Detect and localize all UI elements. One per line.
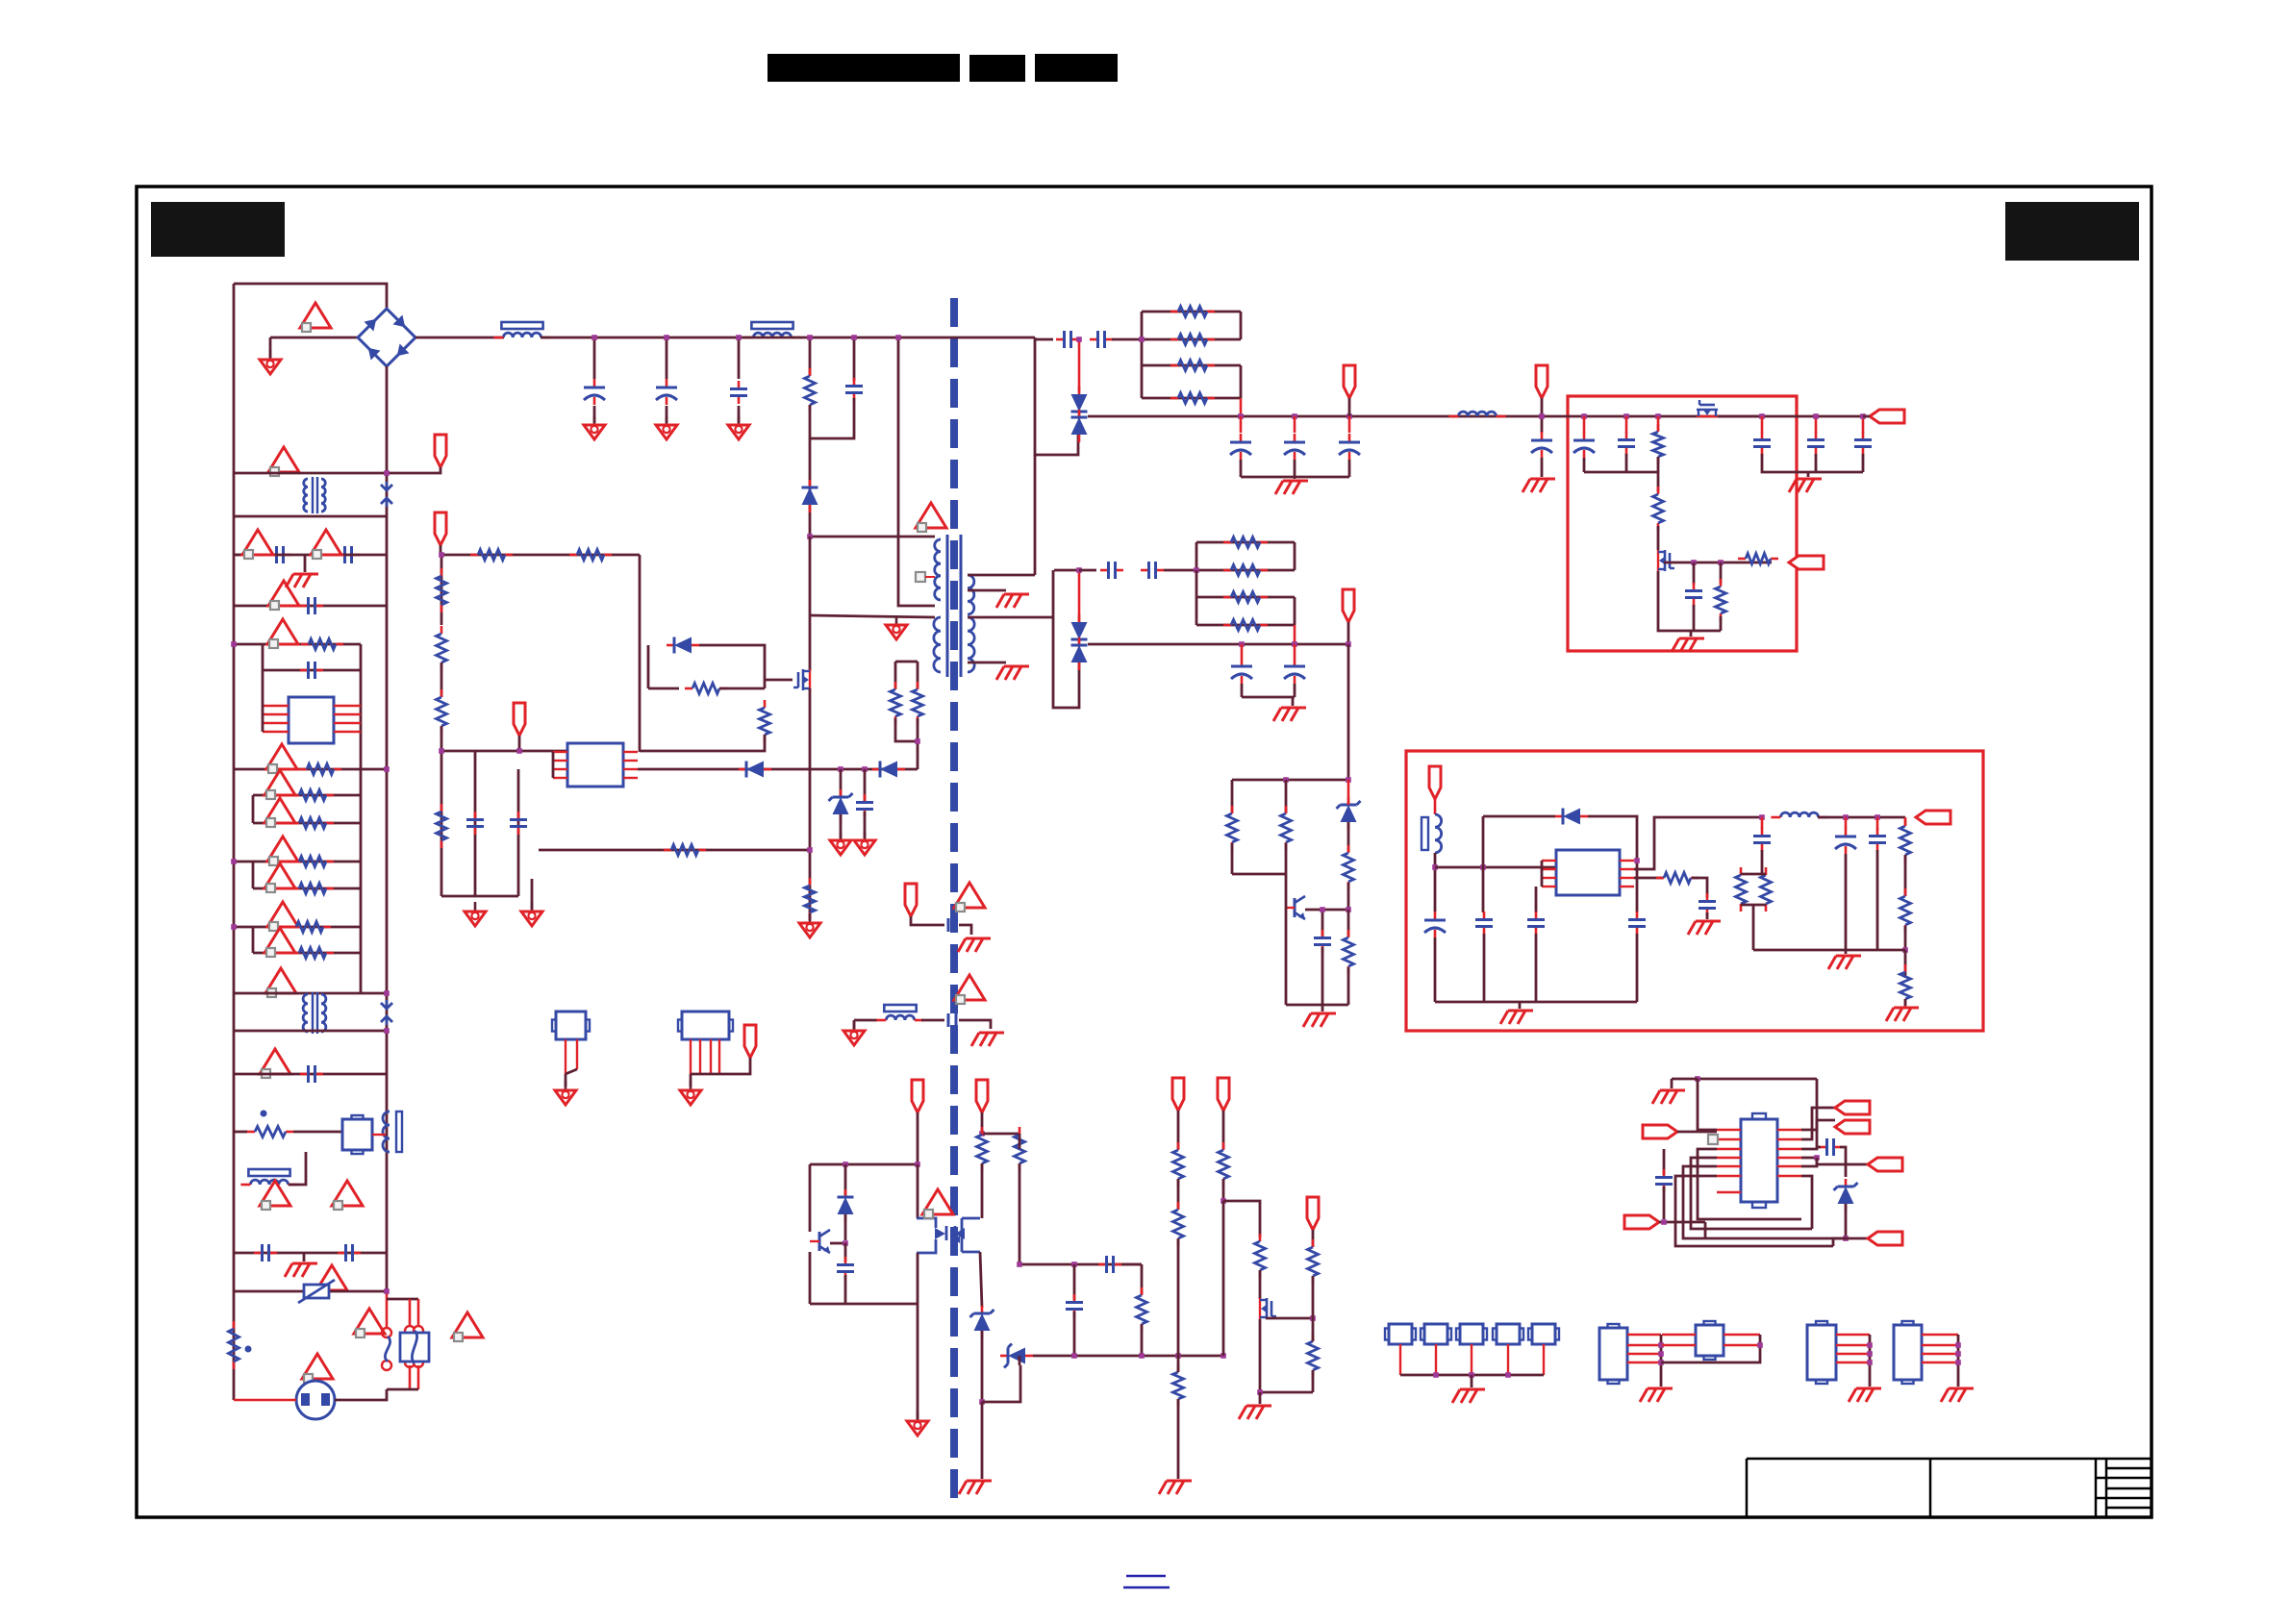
wire pin bbox=[718, 1039, 720, 1074]
wire bbox=[262, 670, 264, 732]
wire bbox=[1636, 850, 1639, 912]
wire pin bbox=[1724, 1344, 1760, 1346]
resistor bbox=[1170, 307, 1215, 317]
wire bbox=[853, 1020, 856, 1029]
wire bbox=[1241, 476, 1349, 479]
wire bbox=[1904, 817, 1907, 826]
resistor bbox=[437, 804, 447, 848]
T103 aux winding bbox=[934, 617, 941, 672]
connector pin 12V bbox=[1344, 365, 1355, 398]
wire aux supply bbox=[638, 768, 918, 771]
transistor Q102 bbox=[810, 1230, 830, 1253]
wire bbox=[1840, 1147, 1846, 1177]
wire pin bbox=[710, 1039, 712, 1074]
node junction bbox=[1759, 814, 1765, 820]
connector pin 5V bbox=[1343, 589, 1354, 622]
node junction bbox=[851, 335, 857, 340]
wire bbox=[1177, 1356, 1180, 1372]
wire bbox=[917, 718, 919, 769]
pin marker bbox=[1708, 1135, 1718, 1144]
wire bbox=[1657, 526, 1660, 550]
wire ladder bottom bbox=[234, 992, 387, 995]
node junction bbox=[1759, 413, 1765, 419]
wire bbox=[840, 814, 843, 838]
wire pin bbox=[334, 722, 361, 724]
main switching MOSFET Q101 bbox=[793, 669, 810, 690]
NTC dot bbox=[261, 1111, 267, 1117]
pin marker bbox=[916, 572, 925, 582]
wire bbox=[1019, 1134, 1021, 1149]
rectifier dual diode D202 bbox=[1071, 614, 1088, 647]
node junction bbox=[231, 924, 237, 930]
wire pin bbox=[1836, 1334, 1870, 1336]
capacitor bbox=[837, 1257, 854, 1280]
capacitor bbox=[1685, 583, 1702, 606]
wire bbox=[566, 1069, 577, 1074]
wire bbox=[1196, 569, 1295, 572]
node junction bbox=[843, 1162, 848, 1167]
wire bbox=[1019, 1356, 1021, 1365]
sub-circuit box (regulator module) bbox=[1406, 751, 1983, 1031]
chassis ground bbox=[1886, 1008, 1919, 1021]
wire bbox=[1142, 338, 1241, 341]
wire pin bbox=[1662, 1334, 1696, 1336]
wire gate bbox=[765, 679, 793, 682]
winding bbox=[321, 479, 325, 512]
wire bbox=[1815, 416, 1818, 433]
wire bbox=[968, 662, 1006, 664]
node junction bbox=[1239, 641, 1245, 647]
resistor bbox=[1736, 867, 1747, 912]
node junction bbox=[843, 1240, 848, 1246]
choke L204 bbox=[876, 1005, 923, 1020]
wire bbox=[234, 1399, 296, 1402]
wire bbox=[1862, 416, 1865, 433]
wire bbox=[1232, 873, 1286, 876]
resistor bbox=[1223, 592, 1268, 603]
resistor bbox=[1656, 873, 1699, 884]
wire secondary loop 1 bbox=[1035, 337, 1078, 455]
wire bbox=[1434, 853, 1437, 912]
wire bbox=[959, 1020, 991, 1029]
wire bbox=[1240, 312, 1243, 339]
wire fuse lead bbox=[417, 1299, 420, 1328]
wire bbox=[968, 574, 1035, 577]
wire ladder row 7 bbox=[234, 926, 361, 929]
node junction bbox=[1505, 1372, 1511, 1378]
wire pin bbox=[1620, 860, 1634, 862]
wire bbox=[1196, 624, 1295, 627]
wire fuse lead bbox=[409, 1299, 412, 1328]
resistor bbox=[664, 845, 706, 856]
wire bridge AC input bbox=[270, 337, 359, 339]
ground (isolated) bbox=[680, 1081, 701, 1105]
wire bbox=[1348, 416, 1351, 433]
wire bbox=[844, 1164, 847, 1197]
wire bbox=[1636, 934, 1639, 1002]
node junction bbox=[838, 766, 843, 772]
capacitor bbox=[1753, 828, 1771, 851]
wire bbox=[1675, 1176, 1833, 1246]
capacitor bbox=[337, 546, 360, 563]
mains plug P101 bbox=[296, 1381, 335, 1419]
wire pin bbox=[1836, 1344, 1870, 1346]
wire bbox=[1222, 1179, 1225, 1201]
wire pin bbox=[1543, 1344, 1545, 1375]
capacitor X2 bbox=[338, 1244, 361, 1262]
wire startup divider bbox=[440, 555, 443, 625]
capacitor bbox=[1090, 331, 1113, 348]
chassis ground bbox=[1273, 708, 1306, 721]
wire bbox=[1693, 605, 1696, 631]
node junction bbox=[1292, 641, 1297, 647]
diode D203 bbox=[1555, 809, 1588, 825]
wire bbox=[1177, 1111, 1180, 1149]
wire bbox=[1312, 1230, 1315, 1247]
resistor bbox=[437, 626, 447, 670]
resistor bbox=[291, 884, 334, 894]
node junction bbox=[1902, 947, 1908, 953]
wire bbox=[234, 472, 387, 475]
wire bbox=[1285, 908, 1288, 1005]
connector CN201 bbox=[1385, 1324, 1416, 1344]
capacitor bbox=[1753, 432, 1771, 455]
wire bbox=[1634, 817, 1762, 869]
ground (isolated) AC ref bbox=[260, 350, 281, 374]
resistor bbox=[437, 568, 447, 612]
node junction bbox=[384, 990, 390, 996]
wire bbox=[1305, 909, 1348, 912]
inductor L201 bbox=[1448, 412, 1505, 416]
wire bbox=[809, 1252, 812, 1304]
diode bbox=[1071, 410, 1088, 442]
wire bbox=[1797, 471, 1863, 474]
wire bbox=[1541, 458, 1544, 477]
connector pin sense 2 bbox=[1218, 1078, 1229, 1111]
spark gap SG102 bbox=[381, 1000, 392, 1025]
wire pin bbox=[1777, 1175, 1801, 1177]
wire bbox=[1292, 697, 1295, 706]
connector pin sense bbox=[1172, 1078, 1184, 1111]
wire bbox=[1957, 1335, 1960, 1387]
node junction bbox=[1194, 567, 1199, 573]
resistor bbox=[1716, 579, 1726, 621]
resistor bbox=[1173, 1364, 1184, 1407]
wire bbox=[1845, 854, 1848, 950]
resistor bbox=[291, 857, 334, 867]
title block bbox=[1747, 1459, 2152, 1517]
wire bbox=[1753, 949, 1905, 952]
node junction bbox=[1346, 777, 1351, 783]
resistor bbox=[437, 689, 447, 734]
isolation barrier (primary/secondary) bbox=[950, 298, 958, 1505]
wire bbox=[1141, 312, 1144, 398]
node junction bbox=[1658, 1342, 1664, 1348]
capacitor X bbox=[300, 1065, 323, 1083]
node junction bbox=[979, 1131, 985, 1137]
core bar bbox=[1422, 817, 1428, 850]
safety warning triangle bbox=[267, 619, 298, 648]
resistor bbox=[1761, 867, 1772, 912]
wire bbox=[1657, 457, 1660, 472]
safety warning triangle bbox=[264, 770, 295, 799]
wire bbox=[1671, 1079, 1673, 1088]
wire bbox=[1741, 873, 1766, 876]
wire ladder row 3 bbox=[253, 794, 361, 797]
fuse terminal bbox=[405, 1358, 415, 1367]
wire bbox=[1285, 874, 1288, 908]
node junction bbox=[516, 748, 522, 754]
wire bbox=[691, 1073, 719, 1076]
tab bbox=[1752, 1113, 1766, 1208]
resistor bbox=[1653, 487, 1664, 531]
zener ZD203 bbox=[1834, 1179, 1858, 1212]
wire bbox=[1231, 843, 1234, 874]
node junction bbox=[1718, 560, 1724, 565]
output tab connector bbox=[1835, 1120, 1870, 1134]
wire bbox=[1348, 398, 1351, 416]
wire bbox=[968, 616, 1051, 619]
wire pin bbox=[1620, 868, 1634, 870]
wire bbox=[234, 1073, 387, 1076]
safety warning triangle bbox=[267, 837, 298, 865]
core bar bbox=[396, 1112, 402, 1152]
node junction bbox=[1661, 1219, 1667, 1225]
wire pin bbox=[263, 731, 289, 733]
wire bbox=[809, 1164, 812, 1232]
chassis ground bbox=[959, 1481, 992, 1494]
wire bbox=[1692, 878, 1707, 897]
wire bridge output bbox=[415, 337, 504, 339]
resistor bbox=[1137, 1287, 1147, 1332]
capacitor bbox=[1807, 432, 1824, 455]
wire pin bbox=[1777, 1165, 1801, 1167]
core bbox=[313, 992, 317, 1034]
wire bbox=[1142, 311, 1241, 313]
node junction bbox=[1658, 1351, 1664, 1357]
wire bbox=[639, 555, 642, 752]
capacitor bus filter bbox=[730, 381, 747, 404]
node junction bbox=[1867, 1360, 1873, 1365]
wire bbox=[1231, 780, 1234, 813]
node junction bbox=[384, 1288, 390, 1294]
node junction bbox=[807, 847, 813, 853]
wire bbox=[1541, 861, 1544, 887]
diode aux D104 bbox=[739, 762, 771, 778]
wire bbox=[1801, 1176, 1812, 1229]
node junction bbox=[1623, 413, 1629, 419]
wire bbox=[1720, 562, 1723, 584]
output tab connector bbox=[1835, 1101, 1870, 1114]
Y-capacitor C_Y1 bbox=[948, 918, 956, 932]
chassis ground bbox=[1640, 1388, 1673, 1402]
wire start-up supply bbox=[440, 554, 640, 557]
resistor bbox=[1900, 888, 1911, 933]
node junction bbox=[1691, 560, 1697, 565]
node junction bbox=[231, 641, 237, 647]
wire bbox=[1285, 843, 1288, 874]
wire bbox=[1657, 472, 1660, 491]
wire bbox=[387, 1388, 418, 1391]
wire bbox=[1519, 1002, 1522, 1009]
wire bbox=[1845, 817, 1848, 829]
wire pin bbox=[1627, 1362, 1661, 1363]
wire bbox=[335, 1389, 387, 1400]
wire bbox=[1435, 866, 1556, 869]
wire bbox=[1035, 338, 1053, 341]
wire bbox=[1078, 570, 1081, 623]
wire 5V rail bbox=[1088, 643, 1348, 646]
fuse terminal bbox=[414, 1326, 423, 1336]
wire bbox=[1904, 950, 1907, 978]
node junction bbox=[1843, 1236, 1849, 1241]
capacitor bbox=[1056, 331, 1079, 348]
wire pin bbox=[565, 1039, 566, 1074]
wire bbox=[1876, 850, 1879, 950]
safety warning triangle bbox=[264, 928, 295, 957]
wire bbox=[1294, 625, 1296, 644]
wire bbox=[417, 1365, 420, 1389]
resistor bbox=[1015, 1127, 1025, 1171]
wire bbox=[1312, 1318, 1315, 1341]
capacitor bbox=[1869, 828, 1886, 851]
wire bbox=[1294, 644, 1296, 658]
wire bbox=[1223, 1201, 1260, 1237]
capacitor electrolytic bbox=[1339, 434, 1360, 460]
wire bbox=[1825, 1237, 1846, 1240]
wire bbox=[1435, 1001, 1637, 1004]
node junction bbox=[1017, 1262, 1022, 1267]
node junction bbox=[1076, 567, 1082, 573]
varistor RV101 bbox=[298, 1280, 335, 1303]
wire bbox=[830, 1242, 845, 1245]
chassis ground bbox=[1789, 479, 1822, 492]
wire to primary tap bbox=[898, 337, 935, 606]
wire ladder right rail bbox=[360, 644, 363, 993]
wire bbox=[1698, 1079, 1717, 1130]
wire bbox=[1051, 616, 1053, 619]
connector pin bbox=[1536, 365, 1548, 398]
wire 12V rail bbox=[1088, 415, 1863, 418]
chassis ground bbox=[1672, 638, 1704, 652]
node junction bbox=[1175, 1353, 1181, 1359]
wire bbox=[980, 1252, 982, 1308]
capacitor electrolytic bbox=[1835, 828, 1856, 854]
safety warning triangle bbox=[242, 530, 273, 559]
wire bbox=[252, 795, 255, 823]
wire bbox=[1672, 1078, 1698, 1081]
wire bbox=[1073, 1312, 1076, 1356]
connector CN205 bbox=[1528, 1324, 1559, 1344]
node junction bbox=[1076, 337, 1082, 342]
wire pin bbox=[553, 768, 567, 770]
wire bbox=[1869, 1335, 1872, 1387]
capacitor electrolytic bbox=[1424, 912, 1446, 937]
wire bbox=[1741, 904, 1766, 907]
optocoupler IC101 bbox=[289, 697, 334, 743]
node junction bbox=[1658, 1360, 1664, 1365]
wire bbox=[531, 879, 534, 910]
capacitor electrolytic bbox=[1531, 432, 1552, 458]
wire bbox=[1232, 779, 1348, 782]
safety warning triangle bbox=[332, 1181, 363, 1210]
wire bbox=[719, 687, 765, 690]
capacitor Vref bbox=[510, 812, 527, 835]
wire pin bbox=[372, 1134, 386, 1136]
wire bbox=[1434, 937, 1437, 1002]
wire bbox=[1807, 472, 1810, 477]
chassis ground bbox=[1828, 956, 1861, 969]
wire bbox=[844, 1275, 847, 1304]
output tab connector bbox=[1868, 1158, 1902, 1171]
ground (isolated) bbox=[656, 415, 677, 439]
wire bbox=[840, 769, 843, 797]
chassis ground bbox=[1239, 1406, 1271, 1419]
node junction bbox=[1292, 413, 1297, 419]
safety warning triangle bbox=[260, 1181, 290, 1210]
regulator IC201 bbox=[1556, 850, 1620, 895]
wire pin bbox=[1542, 877, 1556, 879]
node junction bbox=[1071, 1353, 1077, 1359]
resistor bbox=[1219, 1142, 1229, 1187]
wire bbox=[1625, 454, 1628, 472]
wire pin bbox=[334, 705, 361, 707]
resistor bbox=[1344, 930, 1354, 974]
connector CN207 bbox=[1696, 1321, 1724, 1360]
rectifier dual diode D201 bbox=[1071, 387, 1088, 419]
line transformer T101 winding bbox=[304, 479, 308, 512]
wire bbox=[1658, 571, 1721, 631]
wire DC bus bbox=[541, 337, 1035, 339]
wire bbox=[1195, 542, 1198, 570]
wire bbox=[1054, 569, 1079, 572]
wire bbox=[1112, 338, 1142, 341]
wire bbox=[1240, 416, 1243, 433]
wire pin bbox=[1717, 1191, 1741, 1193]
line transformer T102 winding bbox=[303, 994, 308, 1032]
wire bbox=[1266, 1317, 1313, 1320]
node junction bbox=[915, 738, 920, 744]
wire bbox=[1294, 597, 1296, 625]
wire bbox=[474, 751, 477, 896]
ground (isolated) aux bbox=[886, 615, 907, 639]
wire bbox=[1801, 1158, 1817, 1166]
node junction bbox=[1843, 814, 1849, 820]
wire bbox=[1698, 1078, 1817, 1081]
wire pin bbox=[1777, 1148, 1801, 1150]
node junction bbox=[1955, 1342, 1961, 1348]
wire bbox=[1294, 542, 1296, 570]
wire fuse feed bbox=[386, 1291, 389, 1337]
relay RL101 bbox=[342, 1115, 372, 1154]
node junction bbox=[1469, 1372, 1474, 1378]
wire pin bbox=[263, 713, 289, 715]
wire bbox=[1195, 570, 1198, 597]
wire pin bbox=[1922, 1362, 1958, 1363]
Y-capacitor C_Y2 bbox=[948, 1013, 956, 1027]
wire bbox=[1240, 460, 1243, 477]
node junction bbox=[1257, 1389, 1263, 1395]
wire bbox=[1761, 416, 1764, 433]
wire AC to bridge bbox=[234, 284, 387, 310]
capacitor bbox=[1628, 912, 1646, 935]
wire bbox=[303, 1253, 306, 1262]
wire pin bbox=[263, 705, 289, 707]
wire bbox=[1434, 799, 1437, 814]
wire pin bbox=[334, 713, 361, 715]
safety warning triangle bbox=[264, 863, 295, 892]
resistor NTC bbox=[247, 1127, 293, 1137]
